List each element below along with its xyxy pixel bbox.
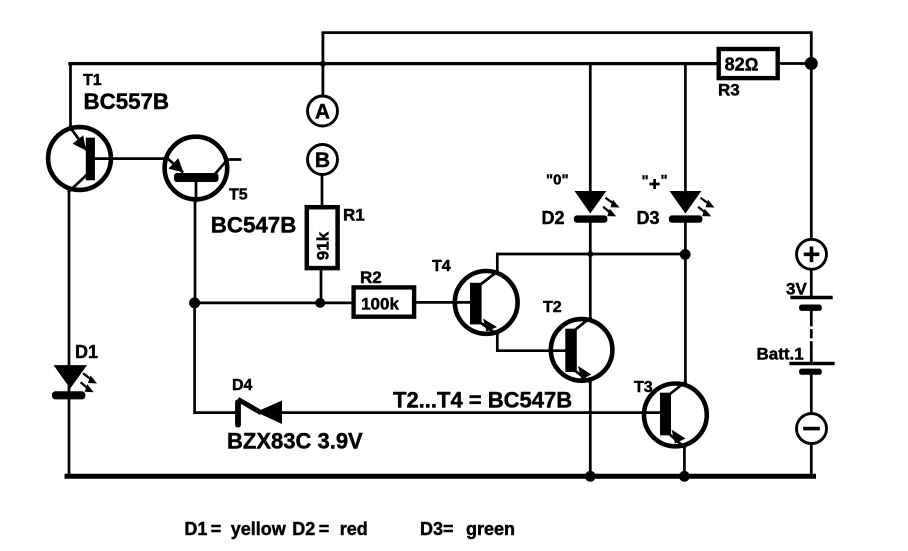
wire R2 to T4 base xyxy=(416,301,470,304)
caption LED colours right xyxy=(420,519,515,539)
svg-text:": " xyxy=(642,173,649,190)
wire T4 emitter to T2 base xyxy=(497,335,565,351)
svg-text:R1: R1 xyxy=(343,206,365,225)
svg-text:R2: R2 xyxy=(360,268,382,287)
wire T4 collector to D3 node xyxy=(497,254,685,272)
ground rail xyxy=(67,474,814,479)
junction node R1 bottom xyxy=(315,298,325,308)
svg-text:T5: T5 xyxy=(229,187,248,204)
junction dot A-line crossing rail xyxy=(320,61,326,67)
resistor R1 xyxy=(307,206,365,269)
wire node B to R1 xyxy=(321,176,324,205)
resistor R2 xyxy=(354,268,415,317)
junction dot ground T2 xyxy=(585,471,596,482)
resistor R3 xyxy=(718,49,778,100)
junction node T5/zener xyxy=(189,297,200,308)
svg-text:D3: D3 xyxy=(637,208,660,228)
wire right node to battery plus xyxy=(810,64,813,239)
transistor T5 xyxy=(165,137,297,238)
wire T3 emitter to ground xyxy=(683,448,686,477)
svg-text:82Ω: 82Ω xyxy=(725,55,759,75)
wire D2 cathode down to T2 collector xyxy=(589,223,592,318)
junction dot D2 line x T4 collector xyxy=(587,251,593,257)
wire plus circle to cell xyxy=(810,270,813,297)
node A xyxy=(308,96,338,126)
transistor T4 xyxy=(432,258,518,335)
dashed link between cells xyxy=(810,311,813,317)
led D2 xyxy=(542,172,620,229)
junction dot right node xyxy=(805,57,818,70)
wire R1 to junction xyxy=(320,271,323,303)
svg-text:=: = xyxy=(443,519,454,539)
transistor T1 xyxy=(48,72,169,192)
svg-text:D4: D4 xyxy=(232,377,253,394)
wire D2 anode branch xyxy=(589,64,592,192)
transistor T2 xyxy=(543,299,612,383)
svg-text:A: A xyxy=(315,101,330,124)
caption LED colours left xyxy=(184,519,367,539)
svg-text:BZX83C 3.9V: BZX83C 3.9V xyxy=(227,429,363,454)
svg-text:"0": "0" xyxy=(546,172,569,189)
svg-text:D1: D1 xyxy=(184,519,207,539)
zener diode D4 xyxy=(232,377,282,428)
svg-text:T3: T3 xyxy=(634,379,653,396)
svg-text:": " xyxy=(661,172,668,189)
led D1 xyxy=(52,342,98,399)
svg-text:BC547B: BC547B xyxy=(211,212,297,237)
svg-text:yellow: yellow xyxy=(231,519,287,539)
wire junction to T3 base bus xyxy=(195,303,236,413)
svg-text:T4: T4 xyxy=(432,258,451,275)
svg-text:R3: R3 xyxy=(718,81,740,100)
svg-text:=: = xyxy=(319,519,330,539)
svg-text:D3: D3 xyxy=(420,519,443,539)
wire T1 collector / D1 branch xyxy=(68,192,71,477)
wire T1 emitter drop xyxy=(69,64,72,127)
svg-text:BC557B: BC557B xyxy=(84,89,170,114)
svg-text:red: red xyxy=(340,519,368,539)
wire R3 to right node xyxy=(780,62,805,65)
svg-text:D2: D2 xyxy=(542,208,565,228)
junction dot ground T3 xyxy=(679,471,690,482)
transistor T3 xyxy=(634,379,707,448)
battery cell 1 xyxy=(786,280,831,311)
svg-text:Batt.1: Batt.1 xyxy=(757,345,804,364)
junction dot D3/T4 collector xyxy=(680,249,691,260)
wire minus circle to ground rail xyxy=(810,444,813,476)
svg-text:B: B xyxy=(315,149,330,172)
wire base bus to R2 xyxy=(195,302,352,305)
svg-text:green: green xyxy=(466,519,515,539)
svg-text:T1: T1 xyxy=(83,72,102,89)
battery cell 2 xyxy=(757,345,834,375)
svg-text:D2: D2 xyxy=(292,519,315,539)
wire zener to T3 base xyxy=(282,411,661,414)
svg-text:T2: T2 xyxy=(543,299,562,316)
led D3 xyxy=(637,172,715,228)
wire D3 cathode down to T3 collector xyxy=(684,223,687,382)
svg-text:T2...T4 = BC547B: T2...T4 = BC547B xyxy=(393,388,572,413)
svg-text:3V: 3V xyxy=(786,280,807,299)
battery plus terminal circle xyxy=(797,239,827,269)
node B xyxy=(308,145,338,175)
svg-text:=: = xyxy=(211,519,222,539)
wire cell 2 to minus circle xyxy=(810,375,813,414)
svg-text:100k: 100k xyxy=(361,294,399,313)
wire T5 base down to junction xyxy=(194,201,197,303)
wire D3 anode branch xyxy=(684,64,687,192)
wire supply rail xyxy=(70,62,717,65)
svg-text:91k: 91k xyxy=(313,231,332,260)
wire T2 emitter to ground xyxy=(589,383,592,477)
svg-text:D1: D1 xyxy=(75,342,98,362)
wire top rail with corners xyxy=(323,33,811,95)
battery minus terminal circle xyxy=(797,414,827,444)
